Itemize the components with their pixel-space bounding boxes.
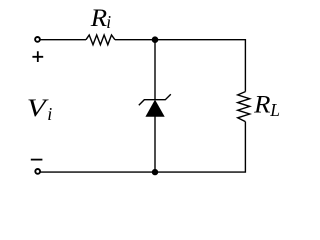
wire: node B to bottom terminal bbox=[41, 171, 156, 173]
label Vi bbox=[27, 95, 53, 124]
zener cathode bar with bent tails bbox=[139, 94, 171, 105]
svg-text:L: L bbox=[269, 100, 280, 120]
resistor RL (vertical zigzag) bbox=[238, 92, 250, 122]
label RL bbox=[253, 90, 280, 120]
wire: top junction node A to top-right corner bbox=[155, 40, 245, 92]
wire: top terminal to resistor Ri bbox=[40, 39, 86, 41]
wire: resistor Ri to top junction node A bbox=[115, 39, 155, 41]
label Ri bbox=[90, 4, 111, 33]
minus sign bbox=[31, 159, 43, 161]
svg-text:i: i bbox=[106, 12, 111, 32]
wire: node A down to zener cathode bbox=[154, 40, 156, 100]
svg-text:V: V bbox=[27, 95, 49, 123]
zener anode triangle bbox=[146, 100, 164, 116]
zener diode DZ bbox=[139, 94, 171, 116]
junction dot: node A (top) bbox=[152, 36, 159, 43]
svg-text:R: R bbox=[90, 4, 108, 32]
terminal: top-left input (+) open circle bbox=[35, 37, 40, 42]
junction dot: node B (bottom) bbox=[152, 169, 158, 175]
svg-text:i: i bbox=[47, 104, 52, 124]
terminal: bottom-left input (&#8722;) open circle bbox=[35, 169, 40, 174]
plus sign bbox=[32, 51, 43, 62]
wire: resistor RL to bottom-right corner and to node B bbox=[155, 122, 245, 173]
svg-text:R: R bbox=[253, 90, 271, 118]
resistor Ri (zigzag) bbox=[86, 35, 115, 45]
wire: zener anode down to bottom junction node B bbox=[154, 116, 156, 172]
